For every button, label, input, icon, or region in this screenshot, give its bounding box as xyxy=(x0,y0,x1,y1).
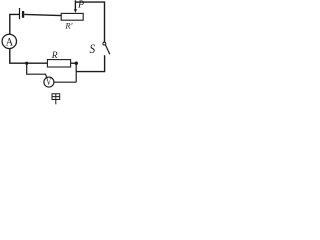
slider arm P vertical xyxy=(74,0,76,10)
wire battery to rheostat left terminal xyxy=(24,14,61,15)
wire voltmeter right lead xyxy=(54,81,76,83)
svg-text:R: R xyxy=(51,51,58,61)
wire right junction vertical (node to voltmeter lead) xyxy=(75,63,77,82)
resistor R body xyxy=(47,60,70,67)
battery short thick plate (negative) xyxy=(22,11,24,18)
battery long plate (positive) xyxy=(19,8,21,19)
switch S blade (open) xyxy=(105,45,109,55)
ammeter A circle xyxy=(2,34,16,48)
node dot right junction xyxy=(75,62,78,65)
rheostat body R' xyxy=(61,13,83,20)
slider arrowhead xyxy=(74,9,77,13)
wire voltmeter left branch xyxy=(27,63,47,77)
svg-text:P: P xyxy=(77,0,84,11)
wire resistor right terminal to node xyxy=(71,62,77,64)
wire switch bottom to lower-right corner xyxy=(76,55,104,71)
node dot left junction xyxy=(25,62,28,65)
switch S pivot circle xyxy=(103,42,106,45)
svg-text:A: A xyxy=(6,34,14,48)
caption glyph jia (figure label) xyxy=(52,94,60,105)
svg-text:R′: R′ xyxy=(64,21,72,31)
voltmeter V circle xyxy=(44,77,54,87)
wire ammeter to resistor (left vertical and middle rail) xyxy=(10,49,48,64)
wire top-left corner and left vertical to ammeter xyxy=(10,14,19,34)
svg-text:S: S xyxy=(90,42,96,56)
wire slider to switch (top right rail and right vertical) xyxy=(75,2,104,42)
svg-text:V: V xyxy=(46,77,51,87)
